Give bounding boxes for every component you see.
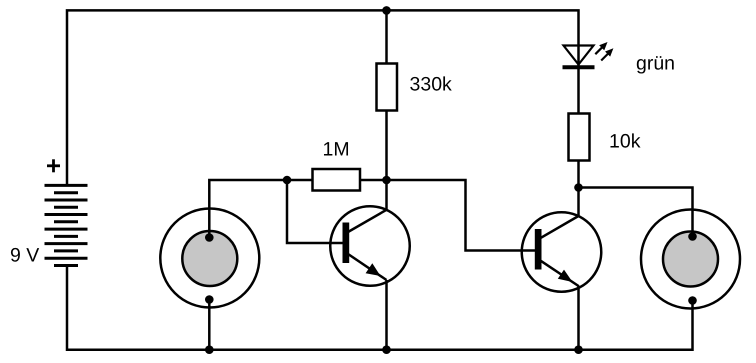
wire top rail to 330k [385, 10, 388, 64]
wire 10k bottom to Q2 collector [577, 161, 580, 217]
junction node C [574, 183, 583, 192]
svg-text:10k: 10k [609, 131, 641, 153]
touch pad left top contact dot [205, 233, 214, 242]
touch pad left bottom contact dot [205, 295, 214, 304]
svg-text:grün: grün [636, 53, 675, 75]
wire top rail with left and right drops [67, 10, 579, 186]
svg-text:1M: 1M [323, 139, 350, 161]
wire Q1 emitter to bottom rail [385, 280, 388, 350]
touch pad right inner disc [663, 232, 718, 287]
wire LED cathode to 10k [577, 67, 580, 114]
LED D1 green [563, 42, 614, 67]
svg-text:9 V: 9 V [10, 245, 39, 267]
junction top rail [382, 6, 391, 15]
touch pad right top contact dot [688, 232, 697, 241]
junction bottom rail right [574, 345, 583, 354]
junction node B [382, 176, 391, 185]
wire 330k bottom to Q1 collector [385, 111, 388, 211]
wire left pad bottom to bottom rail [208, 300, 211, 350]
touch pad right bottom contact dot [688, 296, 697, 305]
junction bottom rail middle [382, 345, 391, 354]
wire Q2 emitter to bottom rail [577, 286, 580, 350]
wire 1M right to node B [360, 179, 387, 182]
svg-text:330k: 330k [410, 74, 453, 96]
wire bottom rail from battery minus to right pad bottom [67, 265, 693, 350]
touch pad left (outer ring) [160, 209, 259, 308]
transistor Q2 [522, 212, 602, 292]
resistor R2 1M [313, 169, 361, 191]
label + (battery plus) [47, 159, 60, 172]
resistor R1 330k [377, 64, 398, 111]
transistor Q1 [330, 206, 410, 286]
wire node A to Q1 base [287, 180, 343, 243]
junction node A [283, 176, 292, 185]
resistor R3 10k [569, 114, 590, 161]
wire node C to right pad top [579, 188, 693, 237]
battery B1 9V [45, 185, 88, 265]
junction bottom rail left [205, 345, 214, 354]
touch pad right (outer ring) [641, 210, 740, 309]
wire left pad top to 1M row [209, 180, 312, 237]
wire node B to Q2 base [387, 180, 536, 251]
touch pad left inner disc [182, 231, 237, 286]
